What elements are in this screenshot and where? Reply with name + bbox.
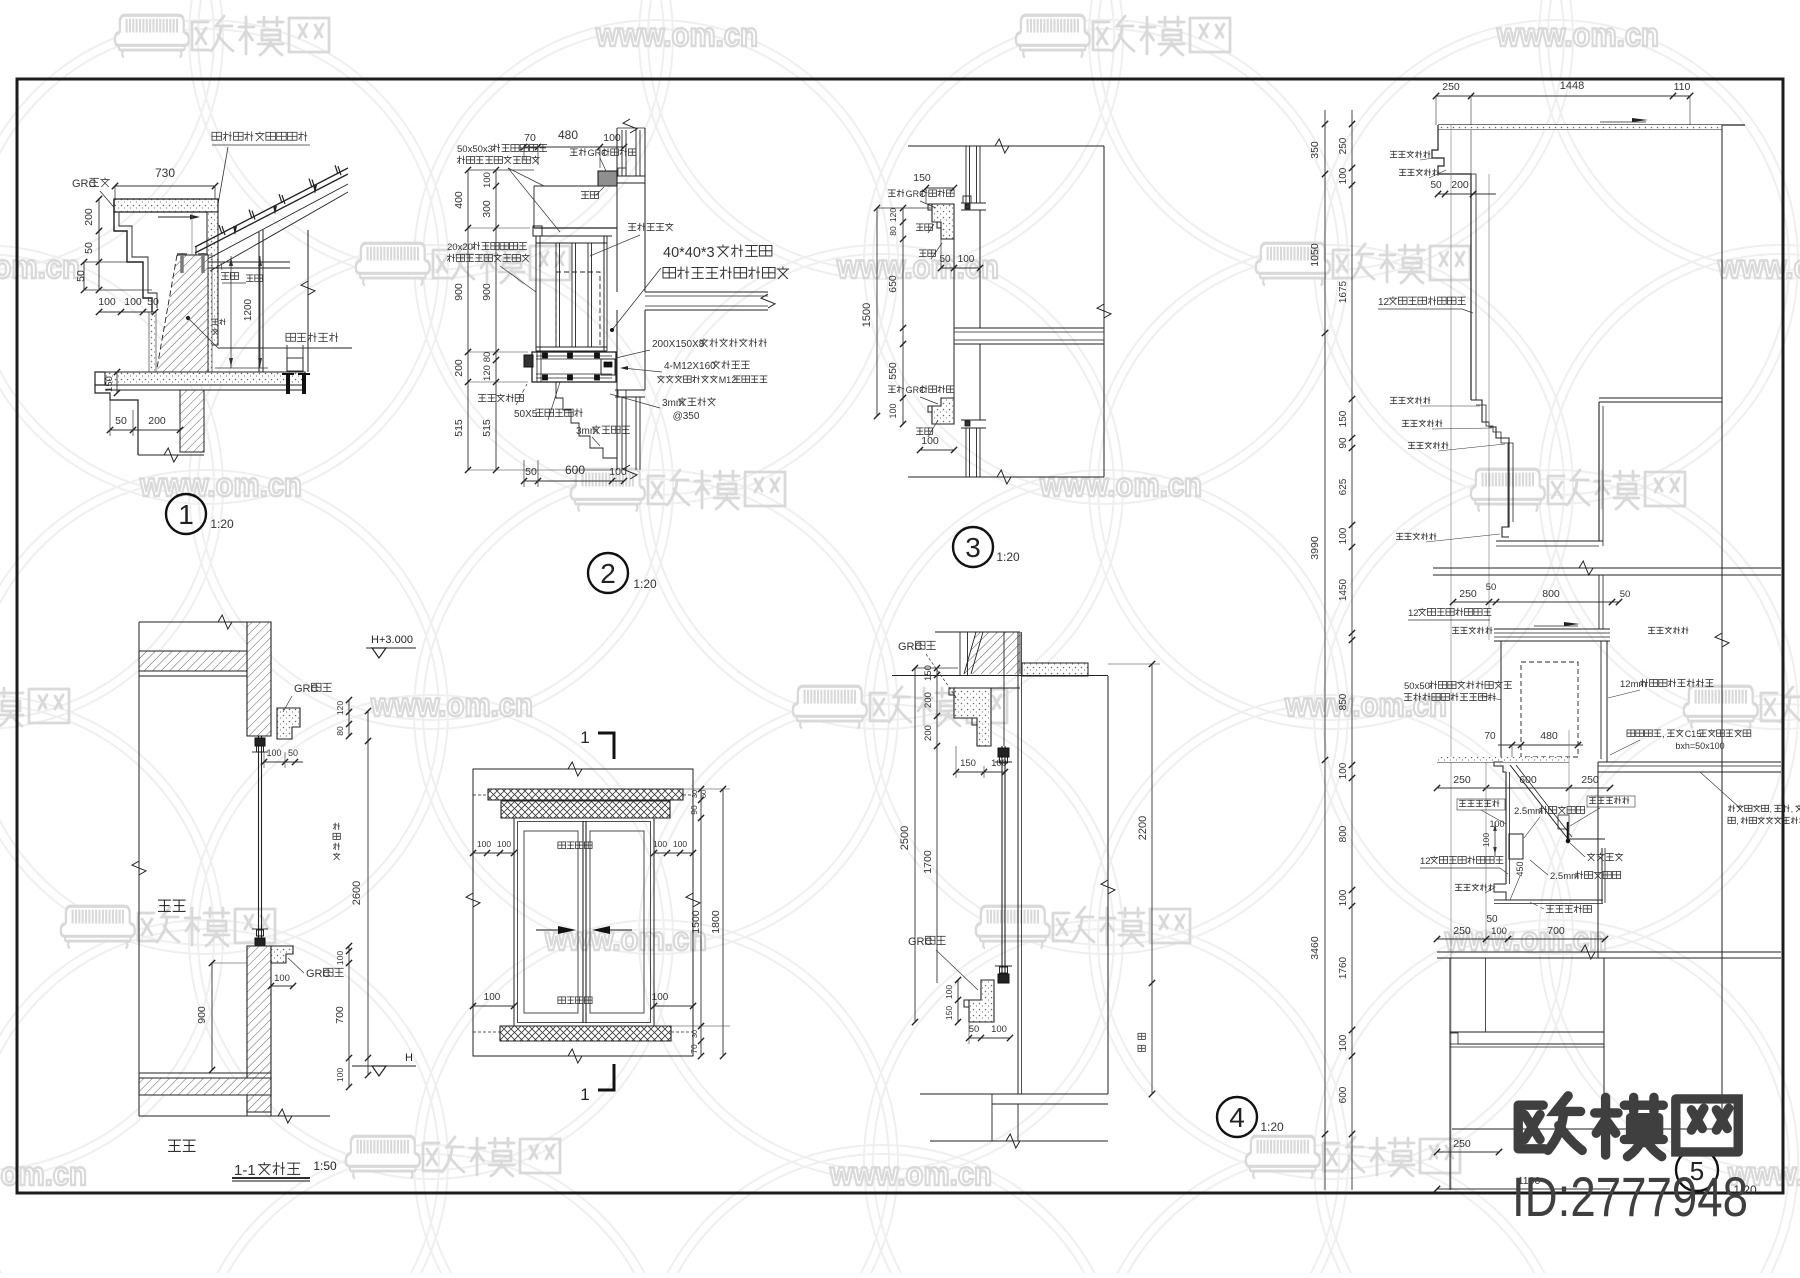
svg-text:100: 100 <box>1489 819 1504 829</box>
svg-text:1450: 1450 <box>1338 578 1349 601</box>
svg-text:600: 600 <box>1338 1086 1349 1103</box>
svg-text:1500: 1500 <box>861 303 873 327</box>
svg-text:www.om.cn: www.om.cn <box>0 1155 87 1192</box>
svg-text:M12: M12 <box>719 375 737 385</box>
svg-text:100: 100 <box>888 403 898 418</box>
svg-text:3990: 3990 <box>1309 536 1321 560</box>
svg-text:2.5mm: 2.5mm <box>1514 806 1543 817</box>
svg-text:50: 50 <box>1486 582 1497 593</box>
svg-text:bxh=50x100: bxh=50x100 <box>1675 741 1724 751</box>
svg-text:GRC: GRC <box>898 641 923 653</box>
svg-text:www.om.cn: www.om.cn <box>829 1155 992 1192</box>
svg-text:60: 60 <box>699 790 708 798</box>
svg-text:100: 100 <box>482 172 493 188</box>
svg-text:2: 2 <box>600 558 616 589</box>
svg-text:50: 50 <box>1430 180 1442 191</box>
svg-text:,: , <box>1662 729 1665 739</box>
svg-text:1: 1 <box>178 499 194 530</box>
svg-text:1700: 1700 <box>922 850 934 874</box>
svg-text:250: 250 <box>1338 137 1349 154</box>
svg-text:1:20: 1:20 <box>996 550 1020 564</box>
svg-text:50: 50 <box>147 296 159 308</box>
svg-text:70: 70 <box>524 132 536 144</box>
svg-text:4: 4 <box>1229 1102 1245 1133</box>
svg-text:150: 150 <box>104 376 115 392</box>
svg-text:550: 550 <box>887 362 899 380</box>
svg-text:H+3.000: H+3.000 <box>371 634 413 646</box>
svg-text:100: 100 <box>1338 527 1349 544</box>
svg-text:30: 30 <box>690 790 699 798</box>
svg-text:3: 3 <box>965 532 981 563</box>
svg-text:100: 100 <box>266 748 281 758</box>
svg-text:50x50x3: 50x50x3 <box>457 144 493 155</box>
svg-text:250: 250 <box>1453 925 1471 937</box>
svg-text:100: 100 <box>335 1068 345 1082</box>
svg-text:900: 900 <box>453 283 465 301</box>
svg-text:200: 200 <box>1451 179 1469 191</box>
svg-text:250: 250 <box>1581 774 1599 786</box>
svg-text:3460: 3460 <box>1309 936 1321 960</box>
svg-text:100: 100 <box>1481 833 1491 847</box>
svg-text:450: 450 <box>1515 861 1525 876</box>
svg-text:70: 70 <box>1484 731 1496 742</box>
svg-text:50: 50 <box>288 748 298 758</box>
svg-text:1-1: 1-1 <box>234 1162 256 1179</box>
svg-text:GRC: GRC <box>588 148 609 158</box>
svg-text:100: 100 <box>653 839 667 849</box>
svg-text:50: 50 <box>1620 589 1631 600</box>
svg-text:80: 80 <box>888 226 898 236</box>
svg-text:www.om.cn: www.om.cn <box>370 686 533 723</box>
svg-text:90: 90 <box>1338 437 1349 449</box>
svg-text:1:50: 1:50 <box>313 1159 337 1173</box>
svg-text:20x20: 20x20 <box>447 242 473 253</box>
svg-text:480: 480 <box>558 128 578 142</box>
svg-text:1675: 1675 <box>1338 280 1349 303</box>
svg-text:4-M12X160: 4-M12X160 <box>664 361 716 372</box>
svg-text:100: 100 <box>991 758 1007 769</box>
svg-text:200X150X8: 200X150X8 <box>652 339 705 350</box>
svg-text:1200: 1200 <box>243 298 254 321</box>
svg-text:www.om.cn: www.om.cn <box>836 248 999 285</box>
svg-text:1:20: 1:20 <box>1260 1120 1284 1134</box>
svg-text:50x50: 50x50 <box>1404 681 1430 692</box>
svg-text:1500: 1500 <box>690 910 702 934</box>
svg-text:12: 12 <box>1408 608 1419 619</box>
svg-text:100: 100 <box>1338 1034 1349 1051</box>
svg-text:730: 730 <box>155 166 175 180</box>
svg-text:100: 100 <box>1338 762 1349 779</box>
svg-text:100: 100 <box>921 435 939 447</box>
svg-text:50: 50 <box>969 1024 980 1035</box>
svg-text:90: 90 <box>689 805 699 815</box>
svg-text:2500: 2500 <box>899 826 911 850</box>
svg-text:400: 400 <box>453 191 465 209</box>
svg-text:www.om.cn: www.om.cn <box>139 466 302 503</box>
svg-text:700: 700 <box>334 1006 346 1024</box>
svg-text:1800: 1800 <box>710 910 722 934</box>
svg-text:200: 200 <box>453 359 465 377</box>
svg-text:100: 100 <box>958 254 975 265</box>
svg-text:1760: 1760 <box>1338 956 1349 979</box>
svg-text:70: 70 <box>689 1044 699 1054</box>
svg-text:www.om.cn: www.om.cn <box>1496 16 1659 53</box>
svg-text:1: 1 <box>580 1085 589 1104</box>
svg-text:100: 100 <box>1491 926 1507 937</box>
svg-text:100: 100 <box>609 466 627 478</box>
svg-text:150: 150 <box>944 1006 954 1020</box>
svg-text:100: 100 <box>497 839 511 849</box>
svg-text:40*40*3: 40*40*3 <box>663 245 715 261</box>
svg-text:250: 250 <box>1453 774 1471 786</box>
svg-text:600: 600 <box>565 463 585 477</box>
svg-text:350: 350 <box>1309 141 1321 159</box>
svg-text:120: 120 <box>888 208 898 222</box>
svg-text:50: 50 <box>1486 914 1498 925</box>
svg-text:800: 800 <box>1338 825 1349 842</box>
svg-text:200: 200 <box>923 692 934 708</box>
svg-text:100: 100 <box>98 296 116 308</box>
svg-text:100: 100 <box>673 839 687 849</box>
svg-text:300: 300 <box>481 200 493 218</box>
svg-text:100: 100 <box>1338 167 1349 184</box>
svg-text:150: 150 <box>923 665 934 681</box>
svg-text:50: 50 <box>525 466 537 478</box>
svg-text:150: 150 <box>960 758 976 769</box>
svg-text:150: 150 <box>913 172 931 184</box>
svg-text:50: 50 <box>115 415 127 427</box>
svg-text:80: 80 <box>335 726 345 736</box>
svg-text:C15: C15 <box>1685 729 1702 739</box>
svg-text:100: 100 <box>603 132 621 144</box>
svg-text:100: 100 <box>274 973 290 984</box>
svg-text:,: , <box>1770 804 1772 814</box>
svg-text:625: 625 <box>1338 478 1349 495</box>
svg-text:www.om.cn: www.om.cn <box>595 16 758 53</box>
svg-text:1: 1 <box>580 728 589 747</box>
svg-text:120: 120 <box>482 365 493 381</box>
svg-text:120: 120 <box>335 701 345 715</box>
svg-text:200: 200 <box>923 725 934 741</box>
svg-text:1050: 1050 <box>1309 243 1321 267</box>
svg-text:100: 100 <box>484 992 501 1003</box>
svg-text:200: 200 <box>83 208 95 226</box>
svg-text:@350: @350 <box>673 411 700 422</box>
svg-text:2600: 2600 <box>351 881 363 905</box>
svg-text:100: 100 <box>1338 889 1349 906</box>
svg-text:100: 100 <box>477 839 491 849</box>
svg-text:250: 250 <box>1453 1138 1471 1150</box>
svg-text:30: 30 <box>690 1030 699 1038</box>
svg-text:515: 515 <box>453 419 465 437</box>
svg-text:www.om.cn: www.om.cn <box>544 920 707 957</box>
svg-text:850: 850 <box>1338 693 1349 710</box>
svg-text:1448: 1448 <box>1560 80 1584 92</box>
svg-text:50: 50 <box>83 242 95 254</box>
svg-text:900: 900 <box>196 1006 208 1024</box>
svg-text:100: 100 <box>652 992 669 1003</box>
svg-text:250: 250 <box>1442 81 1460 93</box>
svg-text:2.5mm: 2.5mm <box>1550 871 1579 882</box>
svg-text:12: 12 <box>1420 856 1431 867</box>
svg-text:GRC: GRC <box>72 178 97 190</box>
svg-text:GRC: GRC <box>906 385 927 395</box>
svg-text:2200: 2200 <box>1137 816 1149 840</box>
svg-text:,: , <box>1791 804 1793 814</box>
svg-text:80: 80 <box>482 352 493 363</box>
svg-text:,: , <box>1736 816 1738 826</box>
svg-text:www.om.cn: www.om.cn <box>1717 248 1800 285</box>
svg-text:100: 100 <box>991 1024 1007 1035</box>
svg-text:110: 110 <box>1674 81 1691 93</box>
svg-text:100: 100 <box>944 985 954 999</box>
svg-text:200: 200 <box>148 415 166 427</box>
svg-text:250: 250 <box>1459 588 1477 600</box>
svg-text:www.om.cn: www.om.cn <box>0 248 80 285</box>
svg-text:150: 150 <box>1338 410 1349 427</box>
svg-text:515: 515 <box>481 419 493 437</box>
svg-text:700: 700 <box>1547 925 1565 937</box>
svg-text:www.om.cn: www.om.cn <box>1039 466 1202 503</box>
svg-text:GRC: GRC <box>306 968 331 980</box>
svg-text:100: 100 <box>124 296 142 308</box>
svg-text:480: 480 <box>1540 730 1558 742</box>
svg-text:650: 650 <box>887 275 899 293</box>
svg-text:GRC: GRC <box>294 683 319 695</box>
svg-text:1:20: 1:20 <box>633 577 657 591</box>
svg-text:12: 12 <box>1378 297 1390 308</box>
svg-text:H: H <box>405 1052 413 1064</box>
svg-text:50X5: 50X5 <box>514 409 538 420</box>
svg-text:900: 900 <box>481 283 493 301</box>
svg-text:GRC: GRC <box>908 936 933 948</box>
svg-text:ID:2777948: ID:2777948 <box>1512 1165 1748 1228</box>
svg-text:800: 800 <box>1542 588 1560 600</box>
svg-text:100: 100 <box>335 951 345 965</box>
svg-text:50: 50 <box>75 270 87 282</box>
svg-text:1:20: 1:20 <box>210 517 234 531</box>
